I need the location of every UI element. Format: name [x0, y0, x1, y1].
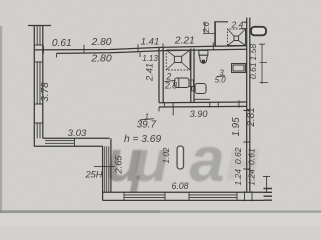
bottom wall hatch right segment	[189, 192, 237, 200]
bottom wall hatch left segment	[124, 192, 165, 200]
svg-text:2.6: 2.6	[202, 21, 211, 34]
svg-text:0.61: 0.61	[248, 62, 258, 79]
svg-text:3.03: 3.03	[68, 128, 87, 139]
toilet room3	[199, 50, 208, 63]
room3 door jambs	[210, 102, 219, 108]
room3 door leaf	[195, 98, 210, 100]
top wall upper line	[35, 46, 248, 50]
bottom wall double line	[103, 192, 264, 200]
pill vent room1	[177, 146, 183, 169]
svg-text:1.58: 1.58	[248, 44, 258, 61]
washbasin room2	[175, 78, 194, 88]
right exterior wall double line	[247, 18, 250, 193]
svg-text:5.0: 5.0	[215, 75, 227, 84]
pill fixture top right	[251, 27, 266, 36]
shower X-box room2	[166, 50, 190, 70]
right wall dimension ticks	[243, 111, 250, 170]
svg-text:2.65: 2.65	[113, 155, 124, 175]
washbasin room3	[192, 84, 206, 94]
svg-text:6.08: 6.08	[171, 181, 188, 191]
svg-text:2.80: 2.80	[91, 37, 112, 48]
corridor wall (room1 / bathroom)	[159, 48, 163, 103]
left exterior wall outline	[34, 25, 43, 147]
svg-text:2.4: 2.4	[231, 20, 244, 30]
lower vertical wall	[103, 138, 111, 200]
room 2 underline	[165, 80, 176, 81]
svg-text:2.80: 2.80	[90, 54, 111, 65]
lower vertical wall hatch	[105, 146, 109, 192]
bottom scan horizontal line	[0, 211, 321, 213]
svg-text:0.62: 0.62	[233, 147, 243, 164]
tick 2.65 dimension	[94, 166, 115, 168]
svg-text:1.41: 1.41	[141, 36, 160, 47]
svg-text:3.78: 3.78	[40, 82, 51, 102]
svg-text:1.02: 1.02	[162, 147, 171, 163]
vent shaft X-box in closet	[228, 29, 246, 46]
bottom wall door ticks	[245, 191, 253, 201]
svg-text:3.90: 3.90	[190, 109, 209, 119]
top wall lower line	[57, 49, 248, 53]
svg-text:2.81: 2.81	[246, 107, 257, 127]
closet top wall	[214, 21, 247, 23]
left wall top cut mark	[28, 25, 51, 27]
scan lighter strip below bottom line	[0, 212, 321, 226]
svg-text:2.41: 2.41	[145, 63, 155, 82]
room2 door leaf	[172, 107, 174, 116]
divider wall room2|room3	[191, 49, 194, 103]
outer right dimension line	[263, 176, 270, 193]
room 3 underline	[217, 75, 225, 78]
svg-text:39.7: 39.7	[137, 120, 157, 131]
svg-text:1.24: 1.24	[246, 169, 256, 186]
bathroom bottom wall	[159, 102, 247, 107]
svg-text:0.61: 0.61	[52, 38, 72, 49]
right wall cut tick	[241, 27, 248, 29]
svg-text:2.21: 2.21	[174, 36, 195, 47]
radiator room3 right wall	[232, 64, 246, 73]
closet 2.6 dim line	[203, 22, 215, 34]
svg-text:h = 3.69: h = 3.69	[124, 134, 161, 145]
closet left wall	[214, 22, 216, 47]
svg-text:1.95: 1.95	[231, 117, 242, 137]
right 1.58/0.61 dim line	[259, 44, 268, 84]
room 1 underline	[140, 119, 154, 120]
left wall window segment borders	[34, 45, 43, 123]
left scan fold line	[0, 26, 2, 213]
lower-left horizontal wall hatch	[45, 138, 75, 146]
top wall dimension ticks	[44, 42, 214, 57]
svg-text:25Н: 25Н	[85, 169, 103, 179]
scan noise texture	[0, 0, 1, 1]
svg-text:2.8: 2.8	[164, 81, 177, 91]
svg-text:а: а	[189, 125, 224, 195]
svg-text:1.13: 1.13	[142, 54, 158, 63]
bottom wall right end bars	[264, 189, 273, 201]
lower-left horizontal wall	[35, 138, 110, 146]
left wall inner hatch lines	[37, 25, 40, 45]
svg-text:1.24: 1.24	[233, 169, 243, 186]
room2 door jambs	[159, 100, 239, 111]
svg-text:0.61: 0.61	[246, 148, 256, 165]
